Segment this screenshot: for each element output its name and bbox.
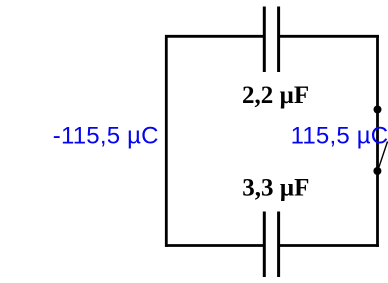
svg-text:2,2 µF: 2,2 µF [242,82,309,109]
svg-text:3,3 µF: 3,3 µF [242,174,309,201]
svg-text:-115,5 µC: -115,5 µC [53,123,159,150]
svg-text:115,5 µC: 115,5 µC [291,123,388,150]
capacitor C2 (3,3 µF), bottom: left plate [263,212,266,278]
wire: left vertical side of loop [165,35,168,247]
wire: right vertical side of loop [376,35,379,247]
capacitor C1 (2,2 µF), top: left plate [263,7,266,73]
switch S1 blade (open), from lower node up to right edge [378,142,387,170]
wire: top horizontal, right segment from capacitor C1 [279,35,379,38]
capacitor C1 (2,2 µF), top: right plate [277,7,280,73]
capacitor C2 (3,3 µF), bottom: right plate [277,212,280,278]
wire: bottom horizontal, right segment from capacitor C2 [279,244,379,247]
wire: bottom horizontal, left segment to capacitor C2 [165,244,264,247]
node: upper junction dot on right wire [374,106,382,114]
node: lower junction dot on right wire [373,167,381,175]
wire: top horizontal, left segment to capacitor C1 [165,35,264,38]
